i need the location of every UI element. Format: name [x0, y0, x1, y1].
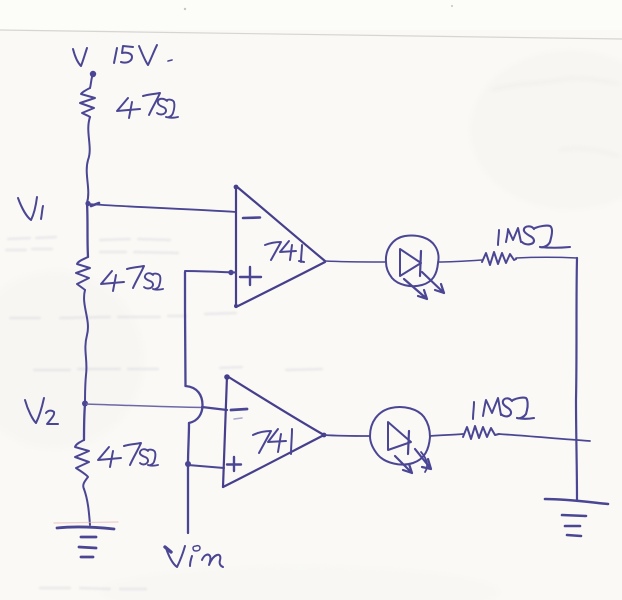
scan edge line	[0, 5, 622, 39]
wire op-amp1 plus input from Vin line	[185, 271, 236, 273]
op-amp U2 741 triangle	[223, 374, 326, 487]
wire op-amp2 plus input from Vin line	[188, 465, 224, 468]
op-amp U1 741 triangle	[234, 185, 325, 308]
label V1	[18, 197, 43, 220]
LED D1 diode triangle	[400, 249, 421, 276]
wire V2 to op-amp2 inverting input	[85, 404, 227, 410]
faint red scan mark at ground	[54, 522, 118, 523]
wire Vin vertical lower segment	[188, 423, 189, 533]
resistor R2 47ohm zigzag	[76, 257, 90, 290]
LED D2 light arrows	[395, 449, 431, 473]
wire R4 to right rail	[516, 256, 577, 259]
label Vin	[165, 546, 223, 567]
op-amp U1 plus input symbol	[240, 267, 261, 285]
node V2 junction	[82, 401, 88, 407]
LED D2 circle	[370, 407, 430, 465]
wire V2 to R3	[84, 404, 85, 440]
bleed-through faint text	[6, 237, 322, 589]
node junction at op-amp2 plus	[185, 461, 191, 467]
resistor R3 47ohm zigzag	[75, 440, 89, 489]
wire	[84, 489, 90, 525]
label 1Mohm (upper)	[498, 226, 570, 248]
wire Vin vertical upper segment	[184, 272, 187, 386]
LED D2 diode triangle	[388, 422, 411, 454]
label 741 (lower op-amp)	[253, 429, 292, 454]
node V supply dot	[90, 71, 96, 77]
wire LED2 to R5	[430, 434, 463, 436]
op-amp U1 minus input symbol	[243, 216, 260, 219]
op-amp U2 minus input symbol	[231, 409, 247, 419]
resistor R1 47ohm zigzag	[80, 88, 95, 117]
wire R5 to right rail (crossing)	[499, 434, 590, 441]
wire op-amp1 output to LED1	[325, 261, 386, 262]
label 47ohm (bottom)	[98, 443, 158, 467]
node V1 junction	[85, 201, 99, 206]
label 741 (upper op-amp)	[265, 241, 304, 262]
ground (left)	[57, 527, 114, 557]
resistor R5 1Mohm zigzag	[463, 426, 499, 439]
LED D1 circle	[386, 235, 439, 286]
wire	[87, 117, 90, 203]
wire op-amp2 output to LED2	[324, 435, 370, 436]
label V2	[25, 398, 58, 424]
label 15V	[114, 45, 172, 65]
wire V1 to V2 (upper part)	[87, 203, 88, 257]
wire	[90, 77, 92, 88]
wire	[84, 290, 88, 403]
wire V1 to op-amp1 inverting input	[88, 204, 236, 212]
label V (supply)	[73, 48, 87, 66]
paper smudge top right	[492, 78, 618, 156]
ground (right)	[545, 499, 608, 536]
LED D1 light arrows	[404, 272, 444, 299]
label 47ohm (top)	[117, 93, 178, 118]
wire LED1 to R4	[438, 260, 482, 262]
wire hop over V2 line	[186, 386, 203, 423]
node junction at op-amp1 plus	[228, 270, 233, 275]
resistor R4 1Mohm zigzag	[482, 252, 516, 265]
op-amp U2 plus input symbol	[227, 457, 241, 471]
label 1Mohm (lower)	[473, 398, 534, 419]
wire right rail vertical	[576, 258, 577, 500]
label 47ohm (middle)	[101, 266, 163, 291]
